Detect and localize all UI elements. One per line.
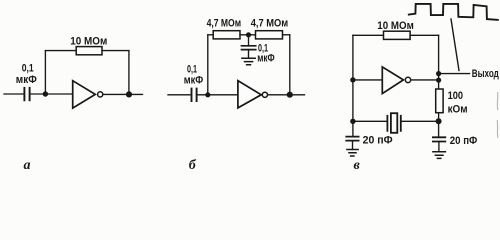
node: bottom right junction (v): [436, 118, 442, 124]
label R5 value 100 / кОм: [448, 90, 468, 116]
inverter U2 triangle (circuit b): [238, 81, 261, 108]
capacitor C5 20 пФ right (circuit v): [433, 137, 445, 141]
wire: feedback top left segment (b): [208, 34, 213, 36]
label C3 value 0,1 / мкФ: [257, 42, 275, 64]
node: inverter input junction (a): [43, 91, 48, 96]
svg-text:мкФ: мкФ: [184, 75, 204, 87]
crystal ZQ1 quartz resonator (v): [387, 113, 400, 133]
wire: output lead to right rail (v): [411, 79, 439, 81]
node: left rail / inverter input junction (v): [350, 77, 355, 82]
svg-text:0,1: 0,1: [22, 63, 34, 75]
capacitor C1 0,1 мкФ (circuit a): [24, 88, 29, 101]
svg-text:Выход: Выход: [472, 68, 499, 80]
label R4 value 10 МОм: [377, 20, 414, 32]
node: output junction on main wire (v): [436, 78, 441, 83]
svg-text:10 МОм: 10 МОм: [377, 20, 414, 32]
inverter U1 output bubble (a): [98, 92, 103, 97]
wire: output branch to label (v): [439, 73, 470, 75]
svg-text:20 пФ: 20 пФ: [450, 135, 478, 147]
wire: feedback left vertical (b): [207, 35, 209, 95]
wire: feedback top right segment (a): [102, 50, 129, 52]
label C1 value 0,1 / мкФ: [16, 63, 37, 86]
svg-text:100: 100: [448, 90, 464, 102]
waveform: square wave pulses: [409, 4, 498, 20]
label C2 value 0,1 / мкФ: [184, 63, 204, 86]
wire: capacitor to ground (b): [248, 50, 250, 59]
label R3 value 4,7 МОм: [251, 17, 289, 29]
wire: feedback left vertical (a): [44, 51, 46, 94]
svg-text:мкФ: мкФ: [16, 74, 37, 86]
wire: input lead circuit a: [4, 93, 23, 95]
svg-text:0,1: 0,1: [187, 63, 197, 75]
ground symbol left (v): [347, 150, 358, 157]
wire: midpoint capacitor lead (b): [248, 35, 250, 45]
wire: output lead (b): [268, 94, 305, 96]
svg-text:а: а: [24, 158, 31, 173]
resistor R2 4,7 МОм left (circuit b): [213, 31, 240, 39]
wire: bottom right segment (v): [402, 120, 439, 122]
wire: top right segment (v): [410, 34, 439, 36]
wire: top left segment (v): [353, 34, 384, 36]
resistor R4 10 МОм (circuit v): [384, 31, 411, 39]
wire: capacitor to inverter input (a): [31, 93, 72, 95]
capacitor C2 0,1 мкФ (circuit b): [192, 89, 197, 101]
wire: feedback top right segment (b): [283, 34, 290, 36]
svg-text:4,7 МОм: 4,7 МОм: [251, 17, 289, 29]
resistor R3 4,7 МОм right (circuit b): [256, 31, 283, 39]
node: output junction (a): [126, 91, 132, 97]
inverter U1 triangle (circuit a): [73, 81, 96, 108]
node: output junction (b): [287, 92, 293, 98]
wire: left vertical rail (circuit v): [352, 35, 354, 136]
wire: right vertical rail lower (v): [438, 113, 440, 137]
inverter U3 output bubble (v): [405, 77, 410, 82]
callout line from waveform to output: [451, 19, 459, 71]
node: bottom left junction (v): [350, 119, 355, 124]
label C4 value 20 пФ: [363, 135, 393, 147]
svg-text:б: б: [189, 158, 197, 173]
label letter a: [24, 158, 31, 173]
label R2 value 4,7 МОм: [207, 17, 242, 29]
svg-text:4,7 МОм: 4,7 МОм: [207, 17, 242, 29]
label R1 value 10 МОм: [70, 35, 107, 47]
inverter U2 output bubble (b): [262, 92, 267, 97]
resistor R1 10 МОм (circuit a): [76, 47, 102, 55]
svg-text:20 пФ: 20 пФ: [363, 135, 393, 147]
resistor R5 100 кОм vertical (circuit v): [436, 89, 443, 113]
wire: between resistors (b): [240, 34, 256, 36]
wire: feedback right vertical (a): [128, 51, 130, 95]
wire: feedback right vertical (b): [289, 35, 291, 95]
wire: capacitor to inverter input (b): [198, 94, 238, 96]
wire: node to inverter input (v): [353, 79, 382, 81]
label letter b: [189, 158, 197, 173]
capacitor C4 20 пФ left (circuit v): [346, 137, 358, 141]
ground symbol right (v): [433, 152, 446, 159]
label letter v: [354, 158, 361, 173]
svg-text:мкФ: мкФ: [257, 52, 275, 64]
svg-text:10 МОм: 10 МОм: [70, 35, 107, 47]
label output Выход: [472, 68, 499, 80]
wire: bottom left segment (v): [353, 120, 387, 122]
wire: feedback top left segment (a): [45, 50, 76, 52]
svg-text:в: в: [354, 158, 361, 173]
ground symbol (b): [242, 58, 255, 65]
wire: C4 to ground: [352, 141, 354, 150]
node: resistor midpoint (b): [246, 32, 251, 37]
wire: input lead circuit b: [168, 94, 190, 96]
inverter U3 triangle (circuit v): [382, 67, 403, 94]
wire: right vertical rail upper (v): [438, 35, 440, 89]
svg-text:кОм: кОм: [448, 103, 468, 115]
label C5 value 20 пФ: [450, 135, 478, 147]
capacitor C3 0,1 мкФ shunt (circuit b): [242, 46, 256, 50]
node: output branch junction (v): [436, 71, 441, 76]
wire: output lead (a): [103, 93, 143, 95]
node: inverter input junction (b): [205, 92, 210, 97]
wire: C5 to ground: [438, 142, 440, 152]
